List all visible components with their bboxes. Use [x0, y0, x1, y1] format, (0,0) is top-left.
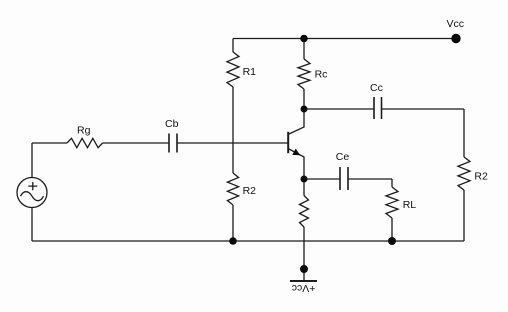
svg-text:R1: R1 [243, 66, 257, 78]
svg-text:R2: R2 [474, 171, 488, 183]
svg-text:Ce: Ce [336, 151, 350, 163]
svg-text:Cb: Cb [165, 118, 179, 130]
svg-text:RL: RL [403, 199, 417, 211]
svg-text:Cc: Cc [370, 82, 383, 94]
svg-text:Vcc: Vcc [447, 18, 465, 30]
svg-text:R2: R2 [243, 185, 257, 197]
svg-text:Rc: Rc [315, 68, 328, 80]
svg-text:Rg: Rg [77, 125, 91, 137]
svg-text:+Vcc: +Vcc [292, 282, 316, 294]
